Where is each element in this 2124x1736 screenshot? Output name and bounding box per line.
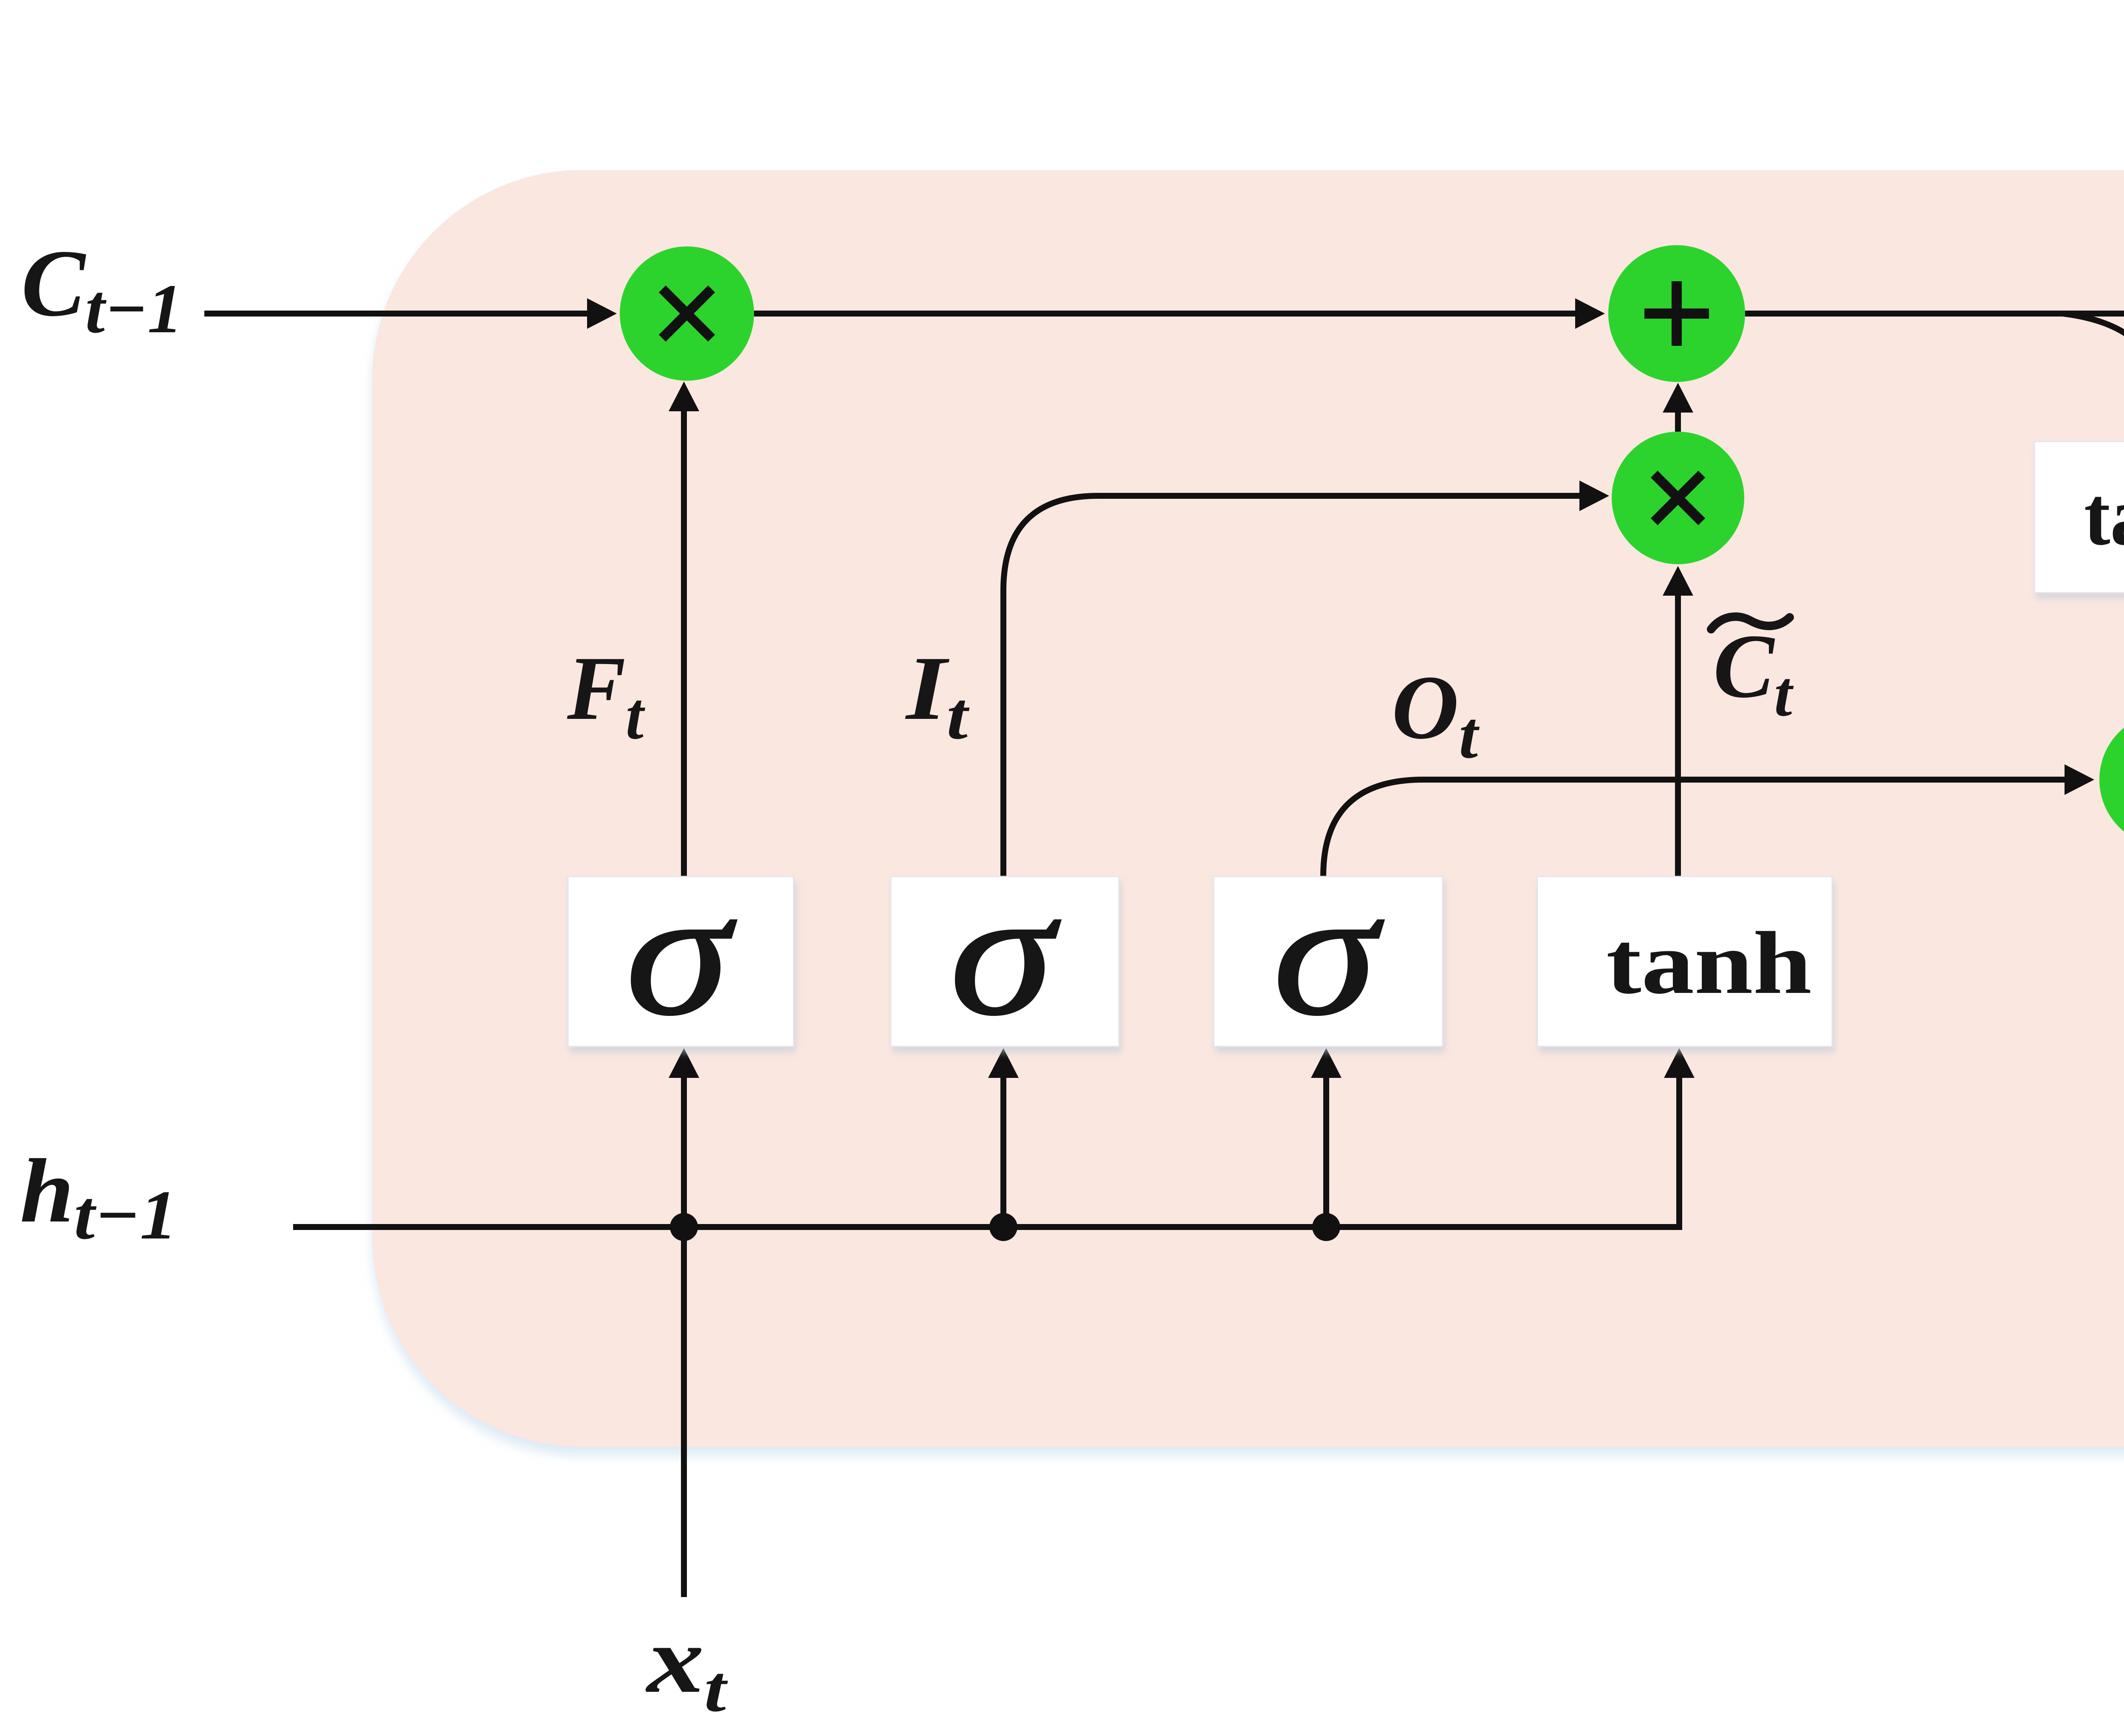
wire dot3 to sigma3	[1311, 1048, 1342, 1227]
add gate plus	[1608, 245, 1745, 382]
tanh box lower	[1537, 876, 1832, 1046]
wire Ct~ tanh to X2	[1663, 566, 1693, 876]
svg-text:σ: σ	[950, 852, 1062, 1052]
wire dot2 to sigma2	[988, 1048, 1019, 1227]
wire Ot sigma3 to X3	[1323, 764, 2094, 876]
wire xt input	[681, 1227, 687, 1597]
wire xt to sigma1	[669, 1048, 699, 1227]
wire branch curve to tanh	[2063, 314, 2124, 427]
multiply gate X3	[2099, 712, 2124, 847]
svg-text:tanh: tanh	[2084, 469, 2124, 563]
label Ct~	[1711, 615, 1794, 729]
sigma box 3	[1214, 852, 1443, 1052]
LSTM cell body	[372, 170, 2124, 1447]
svg-text:σ: σ	[626, 852, 738, 1052]
svg-text:Ct−1: Ct−1	[21, 230, 183, 348]
wire X2 to plus	[1663, 383, 1693, 432]
tanh box upper	[2034, 441, 2124, 593]
sigma box 2	[891, 852, 1119, 1052]
wire X1 to plus	[754, 298, 1605, 329]
svg-text:σ: σ	[1273, 852, 1385, 1052]
sigma box 1	[568, 852, 794, 1052]
wire Ft sigma1 to X1	[669, 382, 699, 876]
svg-text:tanh: tanh	[1606, 914, 1812, 1012]
svg-text:ht−1: ht−1	[20, 1140, 177, 1254]
svg-text:xt: xt	[645, 1606, 728, 1725]
wire It sigma2 to X2	[1003, 481, 1609, 876]
node junction dot 1	[670, 1213, 698, 1241]
node junction dot 3	[1312, 1213, 1340, 1241]
wire Ct-1 input	[204, 298, 617, 329]
node junction dot 2	[989, 1213, 1017, 1241]
wire ht-1 input to tanh2	[293, 1048, 1695, 1227]
wire plus to Ct output	[1745, 298, 2124, 329]
multiply gate X1	[620, 246, 754, 381]
multiply gate X2	[1612, 432, 1744, 564]
